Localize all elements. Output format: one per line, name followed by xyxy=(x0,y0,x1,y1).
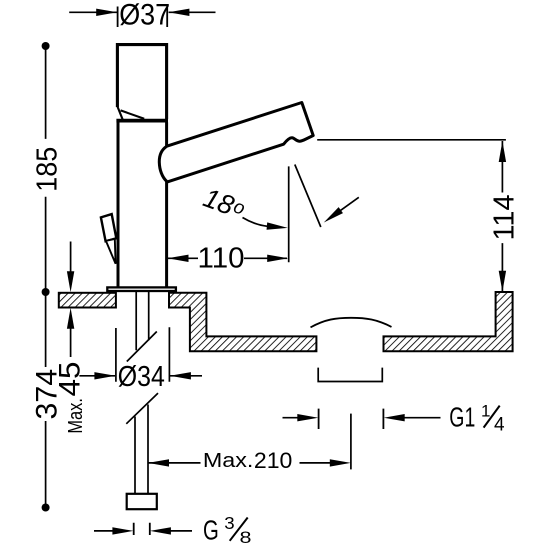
faucet body edges xyxy=(118,122,167,287)
fraction 3/8 slash xyxy=(230,518,248,541)
svg-text:210: 210 xyxy=(254,448,293,473)
svg-text:Ø34: Ø34 xyxy=(118,361,165,393)
svg-text:Ø37: Ø37 xyxy=(119,0,170,32)
18 deg arc leader xyxy=(243,218,269,227)
svg-text:Max.: Max. xyxy=(203,450,254,472)
svg-text:4: 4 xyxy=(494,414,505,435)
svg-text:Max.: Max. xyxy=(65,398,87,434)
dim G3/8 left arrow xyxy=(94,530,115,532)
supply pipe upper xyxy=(136,292,149,351)
dim 114 top arrow xyxy=(499,141,506,162)
svg-text:110: 110 xyxy=(198,243,245,275)
dim G1-1/4 left arrow xyxy=(283,417,301,419)
dim Ø34 extension lines xyxy=(116,327,169,382)
dim 185-374 line xyxy=(45,46,47,508)
pipe end connector xyxy=(127,494,157,509)
dim 114 line xyxy=(501,141,503,292)
counter left rim xyxy=(59,293,116,308)
lever underside line xyxy=(121,110,145,118)
joint line xyxy=(116,119,168,123)
counter right piece with wall xyxy=(384,292,513,351)
dim G3/8 right arrow xyxy=(169,530,192,532)
dim G1-1/4 right arrow xyxy=(403,417,441,419)
leader arrow to slanted line xyxy=(340,197,359,211)
basin arc xyxy=(311,318,392,328)
svg-text:114: 114 xyxy=(489,194,521,240)
dim 110 left arrow xyxy=(168,257,199,259)
svg-text:G: G xyxy=(203,514,219,545)
dim Max.210 left arrow xyxy=(148,462,201,464)
drain centerline xyxy=(350,414,352,470)
side lever xyxy=(101,214,116,241)
dim Max.45 top arrow xyxy=(70,242,72,275)
dim Ø37 ticks xyxy=(118,7,168,28)
spout tip extension line xyxy=(317,139,506,141)
svg-text:185: 185 xyxy=(32,147,64,192)
dim dot bottom xyxy=(42,504,50,512)
dim Max.210 right arrow xyxy=(300,462,333,464)
fraction 1/4 slash xyxy=(484,406,500,428)
counter mid piece with step xyxy=(169,293,316,351)
svg-text:45: 45 xyxy=(54,362,87,397)
dim G3/8 ticks xyxy=(134,523,150,535)
svg-text:G1: G1 xyxy=(449,401,475,432)
supply pipe lower xyxy=(135,405,148,494)
svg-text:3: 3 xyxy=(224,513,234,533)
dim 110 right arrow xyxy=(244,257,287,259)
lever needle xyxy=(106,239,116,264)
svg-text:8: 8 xyxy=(240,528,252,547)
slanted 18 deg line xyxy=(295,165,321,228)
faucet handle top xyxy=(117,45,166,120)
pipe break slash 1 xyxy=(127,332,157,362)
dim Max.45 bottom arrow xyxy=(70,326,72,358)
dim 114 bottom arrow xyxy=(499,271,506,292)
dim Ø37 right arrow xyxy=(169,11,216,13)
svg-text:1: 1 xyxy=(481,402,490,421)
pipe break slash 2 xyxy=(126,393,158,424)
dim dot top xyxy=(42,42,50,50)
drain bracket xyxy=(318,368,382,382)
base flange xyxy=(107,287,176,291)
dim G1-1/4 ticks xyxy=(319,409,384,429)
dim dot middle xyxy=(42,288,50,296)
dim Ø34 left arrow xyxy=(79,375,115,377)
dim Ø37 left arrow xyxy=(69,11,117,13)
dim Ø34 right arrow xyxy=(170,375,202,377)
vertical reference line xyxy=(288,166,290,262)
handle diagonal cut xyxy=(117,106,122,119)
spout xyxy=(159,103,313,182)
